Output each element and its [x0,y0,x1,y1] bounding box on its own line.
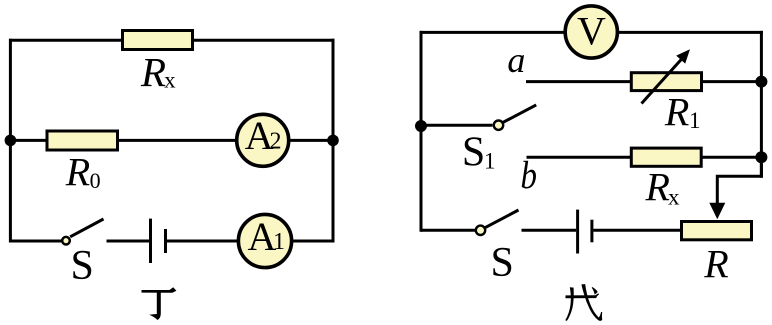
svg-text:V: V [577,9,606,54]
svg-text:x: x [668,185,680,210]
svg-text:1: 1 [689,108,701,133]
svg-text:R: R [140,49,166,95]
svg-text:0: 0 [90,168,101,193]
svg-text:R: R [645,164,670,209]
svg-text:S: S [462,129,485,175]
svg-text:b: b [521,154,538,197]
svg-text:x: x [164,68,176,93]
svg-text:1: 1 [273,229,285,255]
svg-text:R: R [703,242,728,287]
svg-text:S: S [71,243,94,289]
svg-text:1: 1 [484,149,496,174]
svg-text:a: a [507,40,525,80]
svg-text:R: R [664,89,689,134]
svg-text:2: 2 [270,129,282,155]
svg-text:S: S [491,240,514,286]
svg-text:R: R [65,150,90,195]
